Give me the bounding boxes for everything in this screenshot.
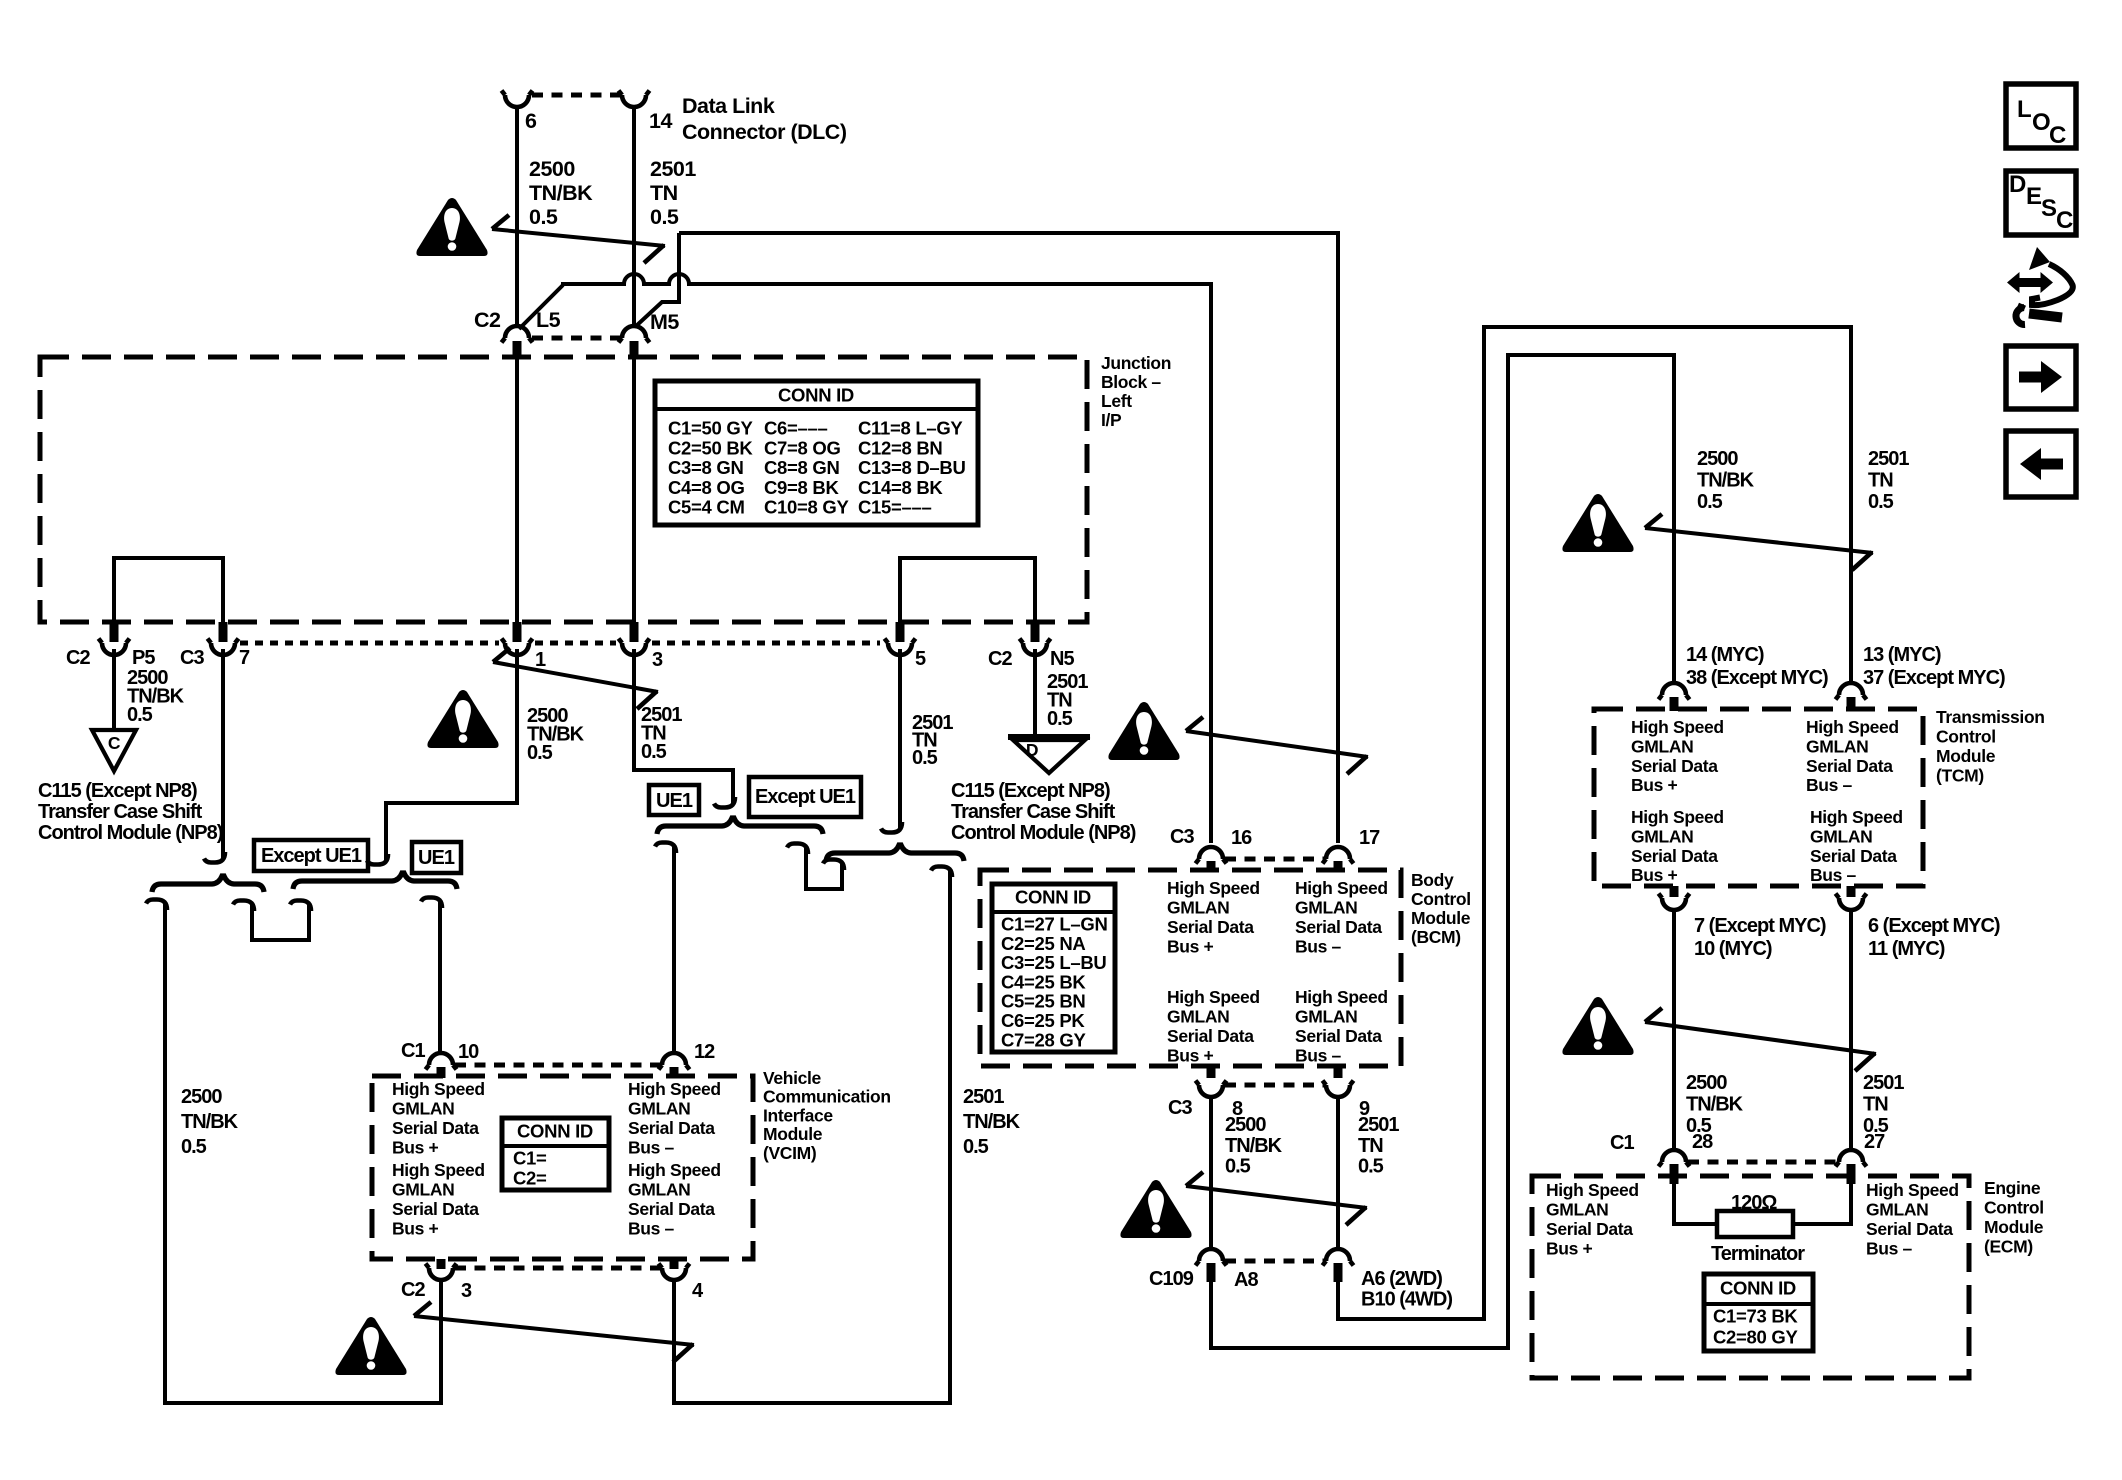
icon box arrow left: [2006, 431, 2076, 497]
svg-text:Transfer Case Shift: Transfer Case Shift: [38, 801, 203, 823]
svg-text:2501: 2501: [1358, 1114, 1399, 1136]
svg-text:CONN ID: CONN ID: [517, 1121, 593, 1142]
connector M5 (cup): [619, 326, 650, 343]
svg-text:TN/BK: TN/BK: [181, 1111, 239, 1133]
svg-text:Serial Data: Serial Data: [392, 1118, 479, 1138]
svg-text:Serial Data: Serial Data: [1866, 1219, 1953, 1239]
svg-text:(VCIM): (VCIM): [763, 1143, 816, 1163]
connector DLC pin 6 (cup): [502, 91, 533, 108]
connector cup junction bottom x=1035: [1020, 639, 1051, 656]
splice brace 2 (VCIM bus+ merge): [293, 873, 457, 889]
svg-text:2501: 2501: [650, 157, 696, 181]
svg-text:C1=27 L–GN: C1=27 L–GN: [1001, 914, 1108, 935]
svg-text:M5: M5: [650, 310, 679, 334]
wire BCM pin 8 to C109 A8: [1209, 1097, 1213, 1249]
svg-text:CONN ID: CONN ID: [1015, 887, 1091, 908]
svg-text:120Ω: 120Ω: [1731, 1192, 1777, 1214]
svg-text:C109: C109: [1149, 1268, 1194, 1290]
svg-text:Serial Data: Serial Data: [1546, 1219, 1633, 1239]
warning triangle (DLC area): [416, 198, 487, 256]
pin stub junction bottom x=634: [630, 622, 639, 642]
svg-text:Control: Control: [1411, 889, 1471, 909]
svg-text:27: 27: [1864, 1131, 1885, 1153]
svg-text:High Speed: High Speed: [1546, 1180, 1639, 1200]
junction top dotted mating line: [532, 336, 620, 341]
warning triangle (BCM bottom): [1120, 1180, 1191, 1238]
page connector triangle D: [1008, 734, 1090, 740]
splice brace 4: [826, 845, 964, 861]
module Junction Block - Left I/P (dashed box): [40, 357, 1087, 622]
svg-text:Interface: Interface: [763, 1105, 833, 1125]
wire P5 to page connector C: [112, 649, 116, 730]
svg-text:2500: 2500: [1697, 448, 1738, 470]
svg-text:C2: C2: [66, 647, 90, 669]
svg-text:GMLAN: GMLAN: [628, 1180, 690, 1200]
wire BCM pin 9 to C109 A6: [1336, 1097, 1340, 1249]
svg-text:C15=–––: C15=–––: [858, 497, 932, 518]
svg-text:D: D: [2009, 171, 2026, 198]
label box Except UE1 (left): [254, 840, 368, 871]
svg-text:2500: 2500: [1225, 1114, 1266, 1136]
CONN ID table (ECM): [1704, 1274, 1813, 1351]
svg-text:6 (Except MYC): 6 (Except MYC): [1868, 915, 2000, 937]
svg-text:Bus –: Bus –: [1295, 1046, 1342, 1066]
wire pin 5 down to brace4: [898, 649, 902, 829]
svg-text:2501: 2501: [1863, 1072, 1904, 1094]
wire from L5 diagonal to bus run B: [519, 285, 563, 329]
ECM dotted mating line: [1688, 1160, 1837, 1165]
svg-text:GMLAN: GMLAN: [1295, 898, 1357, 918]
label box Except UE1 (mid): [749, 777, 861, 817]
svg-text:C12=8 BN: C12=8 BN: [858, 437, 943, 458]
wire C109 A8 down right up to TCM pin 14: [1211, 355, 1674, 1348]
svg-text:Bus +: Bus +: [392, 1219, 439, 1239]
svg-text:C2=: C2=: [513, 1168, 547, 1189]
svg-text:0.5: 0.5: [912, 747, 938, 769]
svg-text:High Speed: High Speed: [1866, 1180, 1959, 1200]
C109 dotted mating line: [1225, 1259, 1324, 1264]
svg-text:C3: C3: [1168, 1097, 1192, 1119]
svg-text:High Speed: High Speed: [1167, 878, 1260, 898]
splice brace 3 (VCIM bus- merge): [657, 818, 823, 834]
wire TCM pin 6 to ECM pin 27: [1849, 910, 1853, 1150]
svg-text:I/P: I/P: [1101, 410, 1122, 430]
svg-text:C2: C2: [988, 648, 1012, 670]
svg-text:Module: Module: [1411, 908, 1471, 928]
wire L5 to pin 1 inside junction block: [515, 359, 519, 624]
svg-text:3: 3: [652, 649, 663, 671]
connector cup junction bottom x=900: [885, 639, 916, 656]
svg-text:C1=: C1=: [513, 1148, 547, 1169]
module VCIM (dashed box): [372, 1076, 753, 1259]
connector cup junction bottom x=634: [619, 639, 650, 656]
svg-text:C2: C2: [474, 308, 501, 332]
wire from M5 zigzag up to bus run A: [636, 233, 679, 326]
svg-text:0.5: 0.5: [127, 704, 153, 726]
svg-text:Control: Control: [1984, 1198, 2044, 1218]
warning triangle (junction area): [427, 690, 498, 748]
svg-text:C4=8 OG: C4=8 OG: [668, 477, 745, 498]
icon wrench and arrow glyph: [2007, 272, 2053, 293]
connector ECM pin 28 (cup): [1659, 1150, 1690, 1167]
reference arrow (junction area): [493, 662, 658, 692]
connector ECM pin 27 (cup): [1836, 1150, 1867, 1167]
wire pin 1 down to UE1 splice: [386, 649, 517, 861]
CONN ID table (junction block): [655, 381, 978, 525]
svg-text:Control Module (NP8): Control Module (NP8): [38, 822, 223, 844]
VCIM top dotted mating line: [455, 1063, 660, 1068]
svg-text:3: 3: [461, 1280, 472, 1302]
svg-text:N5: N5: [1050, 648, 1074, 670]
svg-text:17: 17: [1359, 827, 1380, 849]
svg-text:2500: 2500: [1686, 1072, 1727, 1094]
svg-text:High Speed: High Speed: [1631, 717, 1724, 737]
curl below brace4 right + wire down to bottom loop: [931, 867, 952, 878]
svg-text:UE1: UE1: [418, 847, 455, 869]
svg-text:0.5: 0.5: [1358, 1156, 1384, 1178]
svg-text:TN/BK: TN/BK: [1697, 470, 1755, 492]
svg-text:TN: TN: [1868, 470, 1893, 492]
svg-text:TN: TN: [650, 181, 678, 205]
connector VCIM pin 3 (cup): [437, 1259, 446, 1269]
connector C109 A8 (cup): [1196, 1249, 1227, 1266]
svg-text:P5: P5: [132, 647, 155, 669]
curl below brace2 right + wire to VCIM pin 10: [421, 898, 442, 909]
warning triangle (ECM area): [1562, 997, 1633, 1055]
svg-text:Bus +: Bus +: [1631, 865, 1678, 885]
pin stub junction bottom x=517: [513, 622, 522, 642]
svg-text:7: 7: [239, 647, 250, 669]
svg-text:GMLAN: GMLAN: [1866, 1200, 1928, 1220]
connector TCM pin 14 (cup): [1659, 683, 1690, 700]
reference arrow (TCM area): [1645, 528, 1873, 553]
svg-text:GMLAN: GMLAN: [1295, 1007, 1357, 1027]
svg-text:C1=50 GY: C1=50 GY: [668, 418, 753, 439]
svg-text:GMLAN: GMLAN: [1546, 1200, 1608, 1220]
wire ECM pin 27 to terminator: [1790, 1184, 1851, 1224]
curl below brace left + long left wire: [146, 900, 167, 911]
svg-text:16: 16: [1231, 827, 1252, 849]
bus run B horizontal y=284 with hops, down to BCM pin 16: [561, 274, 1211, 843]
svg-text:C13=8 D–BU: C13=8 D–BU: [858, 457, 966, 478]
svg-text:C2=80 GY: C2=80 GY: [1713, 1327, 1798, 1348]
pin stub junction bottom x=1035: [1031, 622, 1040, 642]
svg-text:TN: TN: [1358, 1135, 1383, 1157]
svg-text:Serial Data: Serial Data: [1631, 846, 1718, 866]
svg-text:Bus –: Bus –: [1295, 937, 1342, 957]
svg-text:Vehicle: Vehicle: [763, 1068, 821, 1088]
label box UE1 (mid): [649, 785, 699, 815]
resistor terminator 120 ohm: [1717, 1211, 1793, 1237]
junction bottom dotted mating line: [240, 641, 499, 646]
svg-text:C7=8 OG: C7=8 OG: [764, 437, 841, 458]
pin stub junction bottom x=114: [110, 622, 119, 642]
connector C109 A6/B10 (cup): [1323, 1249, 1354, 1266]
svg-text:C: C: [108, 733, 121, 753]
svg-text:2500: 2500: [181, 1086, 222, 1108]
svg-text:C3=25 L–BU: C3=25 L–BU: [1001, 952, 1106, 973]
svg-text:Bus +: Bus +: [1167, 1046, 1214, 1066]
svg-text:Bus +: Bus +: [392, 1138, 439, 1158]
wire 7 down to splice brace: [221, 649, 225, 858]
svg-text:C1: C1: [1610, 1132, 1634, 1154]
icon box LOC: [2006, 84, 2076, 148]
label box UE1 (left): [412, 842, 461, 873]
svg-text:C4=25 BK: C4=25 BK: [1001, 971, 1086, 992]
svg-text:High Speed: High Speed: [392, 1079, 485, 1099]
pin stub junction bottom x=900: [896, 622, 905, 642]
svg-text:Connector (DLC): Connector (DLC): [682, 120, 847, 144]
svg-text:1: 1: [535, 649, 546, 671]
reference arrow (ECM area): [1645, 1022, 1876, 1054]
svg-text:C11=8 L–GY: C11=8 L–GY: [858, 418, 963, 439]
svg-text:TN: TN: [1863, 1094, 1888, 1116]
svg-text:28: 28: [1692, 1131, 1713, 1153]
svg-text:Serial Data: Serial Data: [628, 1118, 715, 1138]
BCM top dotted mating line: [1225, 857, 1324, 862]
svg-text:B10 (4WD): B10 (4WD): [1361, 1289, 1452, 1311]
svg-text:C5=4 CM: C5=4 CM: [668, 497, 745, 518]
svg-text:S: S: [2041, 195, 2057, 222]
reference arrow (BCM bottom): [1186, 1186, 1367, 1208]
svg-text:L5: L5: [536, 308, 561, 332]
svg-text:14 (MYC): 14 (MYC): [1686, 644, 1764, 666]
svg-text:0.5: 0.5: [1868, 491, 1894, 513]
svg-text:Bus –: Bus –: [628, 1138, 675, 1158]
svg-text:TN/BK: TN/BK: [529, 181, 593, 205]
connector cup junction bottom x=517: [502, 639, 533, 656]
svg-text:GMLAN: GMLAN: [628, 1099, 690, 1119]
svg-text:Module: Module: [763, 1124, 823, 1144]
svg-text:Bus –: Bus –: [1810, 865, 1857, 885]
svg-text:High Speed: High Speed: [392, 1160, 485, 1180]
svg-text:High Speed: High Speed: [1295, 878, 1388, 898]
svg-text:Serial Data: Serial Data: [628, 1199, 715, 1219]
svg-text:0.5: 0.5: [1047, 708, 1073, 730]
svg-text:Serial Data: Serial Data: [1295, 1026, 1382, 1046]
warning triangle (VCIM area): [335, 1317, 406, 1375]
splice brace (pin 7): [152, 876, 264, 892]
connector BCM pin 9 (cup): [1334, 1066, 1343, 1078]
svg-text:10: 10: [458, 1041, 479, 1063]
svg-text:High Speed: High Speed: [1295, 987, 1388, 1007]
svg-text:11 (MYC): 11 (MYC): [1868, 938, 1945, 960]
pin stub L5: [513, 341, 522, 359]
svg-text:Bus +: Bus +: [1167, 937, 1214, 957]
svg-text:14: 14: [649, 109, 672, 133]
svg-text:Bus –: Bus –: [628, 1219, 675, 1239]
svg-text:A8: A8: [1234, 1269, 1258, 1291]
svg-text:6: 6: [525, 109, 537, 133]
wire pin 3 down to splice (mid): [634, 649, 733, 804]
module BCM (dashed box): [980, 870, 1401, 1066]
wire N5 to page connector D: [1033, 649, 1037, 737]
connector BCM pin 16 (cup): [1196, 847, 1227, 864]
svg-text:C3: C3: [1170, 826, 1194, 848]
connector TCM pin 13 (cup): [1836, 683, 1867, 700]
svg-text:Control Module (NP8): Control Module (NP8): [951, 822, 1136, 844]
svg-text:0.5: 0.5: [650, 205, 679, 229]
svg-text:Left: Left: [1101, 391, 1132, 411]
VCIM bottom dotted mating line: [455, 1266, 660, 1271]
svg-text:2500: 2500: [529, 157, 575, 181]
svg-text:High Speed: High Speed: [1810, 807, 1903, 827]
svg-text:High Speed: High Speed: [1806, 717, 1899, 737]
svg-text:C2=50 BK: C2=50 BK: [668, 437, 753, 458]
svg-text:C14=8 BK: C14=8 BK: [858, 477, 943, 498]
curl below brace3 left + wire to VCIM pin 12: [655, 843, 676, 854]
svg-text:Except UE1: Except UE1: [755, 786, 856, 808]
svg-text:GMLAN: GMLAN: [1810, 826, 1872, 846]
svg-text:TN/BK: TN/BK: [1686, 1094, 1744, 1116]
svg-text:C2=25 NA: C2=25 NA: [1001, 933, 1086, 954]
connector TCM pin 6 (cup): [1847, 886, 1856, 897]
svg-text:C6=25 PK: C6=25 PK: [1001, 1010, 1085, 1031]
svg-text:High Speed: High Speed: [628, 1160, 721, 1180]
svg-text:CONN ID: CONN ID: [778, 385, 854, 406]
svg-text:High Speed: High Speed: [628, 1079, 721, 1099]
svg-text:0.5: 0.5: [1225, 1156, 1251, 1178]
svg-text:Junction: Junction: [1101, 353, 1171, 373]
svg-text:O: O: [2032, 109, 2051, 136]
svg-text:C3: C3: [180, 647, 204, 669]
svg-text:Terminator: Terminator: [1711, 1243, 1805, 1265]
svg-text:Serial Data: Serial Data: [1631, 756, 1718, 776]
module TCM (dashed box): [1594, 709, 1923, 886]
svg-text:Serial Data: Serial Data: [1810, 846, 1897, 866]
svg-text:C2: C2: [401, 1279, 425, 1301]
svg-text:D: D: [1026, 740, 1038, 760]
curl + U link brace3 to brace4: [787, 844, 808, 855]
svg-text:13 (MYC): 13 (MYC): [1863, 644, 1941, 666]
connector VCIM pin 12 (cup): [659, 1053, 690, 1070]
BCM bottom dotted mating line: [1225, 1083, 1324, 1088]
svg-text:GMLAN: GMLAN: [1167, 898, 1229, 918]
svg-text:10 (MYC): 10 (MYC): [1694, 938, 1772, 960]
svg-text:C7=28 GY: C7=28 GY: [1001, 1029, 1086, 1050]
junction interior link P5 to 7: [114, 558, 223, 624]
junction interior link 5 to N5: [900, 558, 1035, 624]
reference arrow (DLC area): [492, 229, 665, 246]
connector cup junction bottom x=114: [99, 639, 130, 656]
svg-text:GMLAN: GMLAN: [1631, 826, 1693, 846]
svg-text:TN/BK: TN/BK: [1225, 1135, 1283, 1157]
bus run A horizontal y=233 down to BCM pin 17: [679, 233, 1338, 843]
svg-text:C8=8 GN: C8=8 GN: [764, 457, 840, 478]
DLC connector dotted mating line: [532, 93, 620, 98]
connector BCM pin 8 (cup): [1207, 1066, 1216, 1078]
icon box DESC: [2006, 171, 2076, 235]
reference arrow (VCIM area): [414, 1316, 694, 1345]
svg-text:C6=–––: C6=–––: [764, 418, 828, 439]
warning triangle (TCM area): [1562, 494, 1633, 552]
wire 2500 from DLC pin 6 down to C2 L5: [515, 107, 519, 327]
svg-text:C115 (Except NP8): C115 (Except NP8): [38, 780, 197, 802]
svg-text:12: 12: [694, 1041, 715, 1063]
icon box arrow right: [2006, 346, 2076, 409]
svg-text:GMLAN: GMLAN: [1167, 1007, 1229, 1027]
svg-text:C: C: [2049, 122, 2066, 149]
svg-text:0.5: 0.5: [527, 742, 553, 764]
wire TCM pin 7 to ECM pin 28: [1672, 910, 1676, 1150]
svg-text:High Speed: High Speed: [1631, 807, 1724, 827]
svg-text:C5=25 BN: C5=25 BN: [1001, 991, 1086, 1012]
svg-text:2501: 2501: [1868, 448, 1909, 470]
svg-text:0.5: 0.5: [529, 205, 558, 229]
svg-text:Except UE1: Except UE1: [261, 845, 362, 867]
svg-text:C: C: [2056, 207, 2073, 234]
svg-text:UE1: UE1: [656, 790, 693, 812]
svg-text:C3=8 GN: C3=8 GN: [668, 457, 744, 478]
svg-text:Communication: Communication: [763, 1087, 891, 1107]
svg-text:C1=73 BK: C1=73 BK: [1713, 1306, 1798, 1327]
svg-text:L: L: [2017, 96, 2032, 123]
connector VCIM pin 10 (cup): [426, 1053, 457, 1070]
svg-text:Engine: Engine: [1984, 1178, 2041, 1198]
svg-text:Module: Module: [1936, 746, 1996, 766]
wire ECM pin 28 to terminator: [1674, 1184, 1720, 1224]
svg-text:C1: C1: [401, 1040, 425, 1062]
svg-text:Body: Body: [1411, 870, 1454, 890]
svg-text:37 (Except MYC): 37 (Except MYC): [1863, 667, 2005, 689]
svg-text:GMLAN: GMLAN: [392, 1180, 454, 1200]
svg-text:0.5: 0.5: [1697, 491, 1723, 513]
connector cup junction bottom x=223: [208, 639, 239, 656]
svg-text:(TCM): (TCM): [1936, 766, 1984, 786]
svg-text:Serial Data: Serial Data: [1295, 917, 1382, 937]
connector TCM pin 7 (cup): [1670, 886, 1679, 897]
svg-text:38 (Except MYC): 38 (Except MYC): [1686, 667, 1828, 689]
svg-text:Serial Data: Serial Data: [1167, 1026, 1254, 1046]
svg-text:7 (Except MYC): 7 (Except MYC): [1694, 915, 1826, 937]
svg-text:GMLAN: GMLAN: [1631, 736, 1693, 756]
svg-text:Bus –: Bus –: [1866, 1239, 1913, 1259]
svg-text:Bus –: Bus –: [1806, 775, 1853, 795]
svg-text:C10=8 GY: C10=8 GY: [764, 497, 849, 518]
svg-text:0.5: 0.5: [963, 1136, 989, 1158]
svg-text:Transmission: Transmission: [1936, 707, 2045, 727]
connector DLC pin 14 (cup): [619, 91, 650, 108]
svg-text:Module: Module: [1984, 1217, 2044, 1237]
CONN ID table (BCM): [992, 884, 1115, 1052]
svg-text:(ECM): (ECM): [1984, 1237, 2033, 1257]
page connector triangle C: [92, 730, 136, 771]
svg-text:Block –: Block –: [1101, 372, 1161, 392]
svg-text:C115 (Except NP8): C115 (Except NP8): [951, 780, 1110, 802]
wire 2501 from DLC pin 14 down to M5: [632, 107, 636, 327]
svg-text:High Speed: High Speed: [1167, 987, 1260, 1007]
svg-text:A6 (2WD): A6 (2WD): [1361, 1268, 1442, 1290]
reference arrow (BCM top): [1186, 731, 1368, 757]
svg-text:C9=8 BK: C9=8 BK: [764, 477, 839, 498]
curl + U link to second brace: [233, 901, 254, 912]
svg-text:Transfer Case Shift: Transfer Case Shift: [951, 801, 1116, 823]
warning triangle (BCM top): [1108, 702, 1179, 760]
pin stub M5: [630, 341, 639, 359]
wire C109 A6 down right up to TCM pin 13: [1338, 327, 1851, 1319]
svg-text:Data Link: Data Link: [682, 94, 775, 118]
svg-text:GMLAN: GMLAN: [1806, 736, 1868, 756]
svg-text:Serial Data: Serial Data: [1806, 756, 1893, 776]
svg-text:CONN ID: CONN ID: [1720, 1278, 1796, 1299]
svg-text:0.5: 0.5: [641, 741, 667, 763]
svg-text:Bus +: Bus +: [1631, 775, 1678, 795]
svg-text:Serial Data: Serial Data: [392, 1199, 479, 1219]
svg-text:0.5: 0.5: [181, 1136, 207, 1158]
connector VCIM pin 4 (cup): [670, 1259, 679, 1269]
svg-text:E: E: [2026, 183, 2042, 210]
svg-text:Serial Data: Serial Data: [1167, 917, 1254, 937]
